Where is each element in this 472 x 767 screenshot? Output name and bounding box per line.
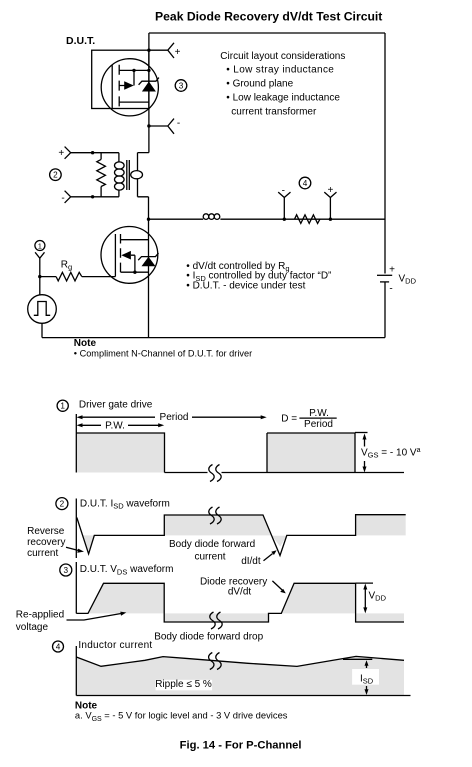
svg-text:+: + xyxy=(327,185,333,196)
svg-text:1: 1 xyxy=(60,402,65,411)
svg-text:-: - xyxy=(389,283,392,294)
svg-text:1: 1 xyxy=(38,242,42,251)
svg-text:+: + xyxy=(175,47,181,58)
svg-text:voltage: voltage xyxy=(16,622,49,633)
svg-text:-: - xyxy=(282,185,285,196)
svg-text:• Compliment N-Channel of D.U.: • Compliment N-Channel of D.U.T. for dri… xyxy=(74,349,252,359)
svg-text:current: current xyxy=(194,551,225,562)
svg-text:dV/dt: dV/dt xyxy=(228,587,252,598)
svg-text:Fig. 14 - For P-Channel: Fig. 14 - For P-Channel xyxy=(180,740,302,752)
svg-text:Driver gate drive: Driver gate drive xyxy=(79,400,153,411)
svg-text:2: 2 xyxy=(53,171,58,180)
svg-text:+: + xyxy=(389,264,395,275)
svg-text:Re-applied: Re-applied xyxy=(16,610,64,621)
svg-text:4: 4 xyxy=(56,642,61,651)
svg-text:4: 4 xyxy=(303,179,308,188)
svg-text:recovery: recovery xyxy=(27,537,65,548)
svg-text:current: current xyxy=(27,548,58,559)
svg-text:Body diode forward: Body diode forward xyxy=(169,539,255,550)
svg-text:• Low leakage inductance: • Low leakage inductance xyxy=(226,93,340,104)
svg-text:Circuit layout considerations: Circuit layout considerations xyxy=(220,51,345,62)
svg-text:Inductor current: Inductor current xyxy=(78,640,152,651)
svg-text:D.U.T. ISD waveform: D.U.T. ISD waveform xyxy=(80,498,170,510)
svg-text:dI/dt: dI/dt xyxy=(241,556,261,567)
svg-text:• D.U.T. - device under test: • D.U.T. - device under test xyxy=(186,280,305,291)
svg-text:-: - xyxy=(61,193,64,204)
svg-text:Period: Period xyxy=(160,412,189,423)
svg-text:2: 2 xyxy=(60,500,65,509)
svg-text:-: - xyxy=(177,118,180,129)
svg-text:D =: D = xyxy=(281,414,297,425)
svg-text:3: 3 xyxy=(179,82,184,91)
svg-text:+: + xyxy=(58,148,64,159)
svg-text:• Low stray inductance: • Low stray inductance xyxy=(226,65,334,76)
svg-text:P.W.: P.W. xyxy=(309,408,329,419)
svg-text:D.U.T.: D.U.T. xyxy=(66,35,95,47)
svg-text:P.W.: P.W. xyxy=(105,420,125,431)
svg-text:current transformer: current transformer xyxy=(231,106,317,117)
svg-text:Ripple ≤ 5 %: Ripple ≤ 5 % xyxy=(155,679,212,690)
svg-text:Reverse: Reverse xyxy=(27,526,65,537)
svg-text:• Ground plane: • Ground plane xyxy=(226,79,293,90)
svg-text:Body diode forward drop: Body diode forward drop xyxy=(154,632,263,643)
svg-text:Period: Period xyxy=(304,419,333,430)
svg-text:3: 3 xyxy=(64,566,69,575)
svg-text:Note: Note xyxy=(74,338,97,349)
svg-text:D.U.T. VDS waveform: D.U.T. VDS waveform xyxy=(80,564,174,576)
svg-text:Peak Diode Recovery dV/dt Test: Peak Diode Recovery dV/dt Test Circuit xyxy=(155,10,382,24)
